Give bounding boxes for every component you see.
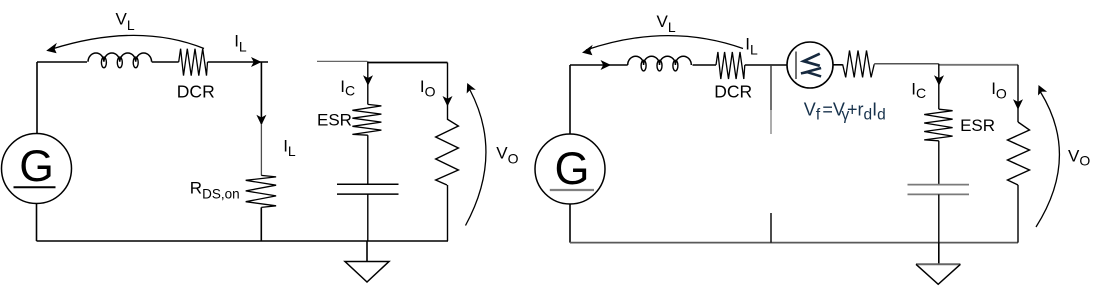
wire top rail output section right segment xyxy=(367,62,447,64)
wire left vertical top (G to top rail) xyxy=(36,62,38,134)
wire capacitor to bottom rail (right) xyxy=(938,194,940,242)
svg-text:ESR: ESR xyxy=(317,111,352,130)
wire DCR to node A xyxy=(208,61,269,63)
wire ESR to capacitor (right) xyxy=(938,141,940,185)
ground GND1 triangle xyxy=(345,262,389,283)
wire ESR to capacitor xyxy=(367,135,369,184)
inductor L1 xyxy=(88,53,152,62)
arrowhead IO (left) xyxy=(443,96,453,107)
resistor RDS,on xyxy=(246,175,276,207)
diode voltage source U1 circle xyxy=(787,42,833,88)
inductor L2 xyxy=(628,56,692,65)
wire top rail to inductor xyxy=(37,61,87,63)
generator G1 circle xyxy=(2,134,72,204)
arrowhead current direction (right top rail) xyxy=(601,60,612,70)
wire RDSon to bottom rail xyxy=(260,207,262,241)
svg-text:DCR: DCR xyxy=(177,81,215,101)
resistor DCR (left) xyxy=(179,49,208,76)
wire load to bottom rail (right) xyxy=(1017,185,1019,243)
open switch upper line fade xyxy=(770,110,772,134)
wire ESR branch upper (left) xyxy=(367,61,369,104)
open switch lower stub xyxy=(770,213,772,243)
wire bottom rail right circuit xyxy=(570,242,1018,244)
wire load branch upper (left) xyxy=(447,63,449,120)
diode source Vgamma glyph V (rotated) xyxy=(804,54,820,66)
capacitor C2 plate bottom xyxy=(908,193,970,195)
VO curved arrow (right) xyxy=(1036,92,1059,227)
wire ESR branch upper (right) xyxy=(938,64,940,109)
svg-text:VL: VL xyxy=(657,12,676,35)
svg-text:VO: VO xyxy=(496,143,518,166)
arrowhead IC (right) xyxy=(934,75,944,86)
svg-text:VL: VL xyxy=(116,10,135,33)
generator G1 underline xyxy=(14,186,56,188)
wire inductor to DCR (right) xyxy=(693,64,717,66)
resistor ESR (right) xyxy=(924,109,952,141)
ground GND2 stub xyxy=(938,243,940,265)
VL curved arrow (right) xyxy=(586,36,743,50)
svg-text:IC: IC xyxy=(911,79,926,100)
VO curved arrow (left) xyxy=(466,90,486,226)
svg-text:IL: IL xyxy=(234,32,247,55)
wire node B to load branch (right) xyxy=(939,64,1018,66)
wire right circuit left vertical top xyxy=(569,65,571,135)
svg-text:IO: IO xyxy=(420,77,436,100)
svg-text:VO: VO xyxy=(1068,146,1090,168)
resistor DCR (right) xyxy=(716,52,745,79)
resistor rd xyxy=(843,51,875,78)
svg-text:IL: IL xyxy=(283,137,296,159)
wire right circuit left vertical bottom xyxy=(569,204,571,243)
svg-text:G: G xyxy=(554,143,589,194)
wire bottom rail left circuit xyxy=(37,240,449,242)
arrowhead IC (left) xyxy=(363,75,373,86)
resistor ESR (left) xyxy=(352,104,381,135)
open switch upper line xyxy=(770,65,772,110)
ground GND2 triangle xyxy=(916,264,960,284)
wire node A down (switch branch) xyxy=(260,62,262,124)
wire arrow to RDSon xyxy=(260,124,262,175)
wire load to bottom rail (left) xyxy=(447,185,449,241)
resistor load R2 (right) xyxy=(1008,122,1030,185)
wire load branch upper (right) xyxy=(1017,65,1019,122)
svg-text:IO: IO xyxy=(991,79,1007,102)
svg-text:RDS,on: RDS,on xyxy=(190,179,240,202)
diode source Vgamma glyph gamma (rotated) xyxy=(801,68,821,76)
wire top rail output section left segment xyxy=(317,60,367,62)
wire inductor to DCR xyxy=(152,61,179,63)
wire rd to node B xyxy=(874,63,939,65)
svg-text:G: G xyxy=(19,142,54,191)
wire left vertical bottom (G to bottom rail) xyxy=(36,204,38,242)
wire DCR to diode source xyxy=(745,64,787,66)
wire capacitor to bottom rail xyxy=(367,194,369,241)
generator G2 underline xyxy=(550,189,594,191)
svg-text:DCR: DCR xyxy=(714,81,752,101)
svg-text:ESR: ESR xyxy=(960,116,995,135)
capacitor C1 plate top xyxy=(337,183,399,185)
arrowhead IL right (left circuit) xyxy=(251,57,262,67)
arrowhead IL down (left circuit) xyxy=(256,115,266,126)
svg-text:IL: IL xyxy=(745,35,758,58)
svg-text:Vf=Vγ+rdId: Vf=Vγ+rdId xyxy=(804,99,886,123)
resistor load R1 (left) xyxy=(436,119,459,185)
ground GND2 triangle top edge xyxy=(916,263,960,265)
capacitor C1 plate bottom xyxy=(337,193,399,195)
ground GND1 stub xyxy=(366,241,368,262)
wire diode source to rd resistor xyxy=(833,64,843,66)
generator G2 circle xyxy=(535,134,605,204)
wire top rail to inductor (right) xyxy=(570,64,628,66)
diode source cursor bar xyxy=(795,52,797,80)
VL curved arrow (left) xyxy=(52,35,204,49)
arrowhead IO (right) xyxy=(1013,99,1023,110)
svg-text:IC: IC xyxy=(340,77,355,98)
capacitor C2 plate top xyxy=(908,184,970,186)
